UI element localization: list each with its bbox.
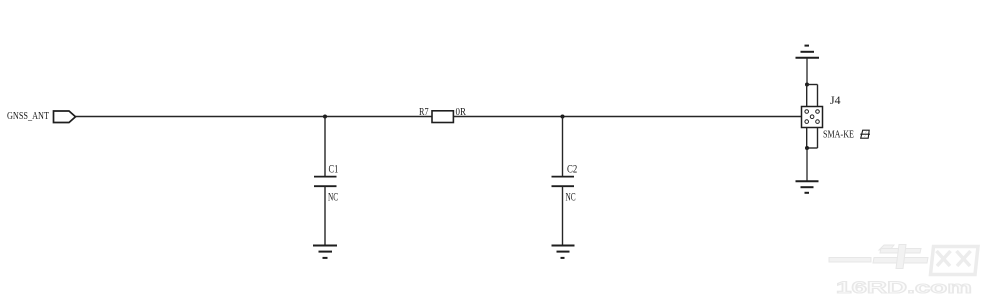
capacitor C1: [314, 177, 337, 187]
resistor R7 body: [432, 111, 453, 123]
svg-text:C1: C1: [329, 162, 339, 176]
node junction J4 bottom: [805, 146, 809, 150]
node junction C1 tap: [323, 115, 327, 119]
svg-text:16RD.com: 16RD.com: [836, 278, 972, 297]
ground above J4 (inverted): [796, 46, 820, 58]
svg-text:NC: NC: [328, 189, 338, 203]
port GNSS_ANT: [54, 111, 76, 123]
wire J4 top ground stem: [806, 58, 808, 85]
node junction J4 top: [805, 83, 809, 87]
wire J4 bottom ground stem: [806, 148, 808, 181]
node junction C2 tap: [561, 115, 565, 119]
watermark yi stroke: [829, 258, 871, 263]
CJK glyph mu (female) of J4 value: [860, 130, 870, 138]
connector J4 body: [802, 107, 823, 128]
wire J4 bottom bracket: [807, 128, 818, 149]
connector J4 pins: [805, 110, 819, 124]
ground below C2: [552, 246, 575, 258]
watermark niu glyph: [873, 245, 928, 269]
capacitor C2: [552, 177, 575, 187]
svg-text:0R: 0R: [456, 106, 467, 118]
watermark wang glyph: [931, 247, 979, 275]
wire C2 upper lead: [562, 117, 564, 177]
wire C1 lower lead: [324, 186, 326, 245]
wire main net GNSS_ANT: [76, 116, 812, 118]
wire C1 upper lead: [324, 117, 326, 177]
svg-text:NC: NC: [566, 189, 576, 203]
svg-text:GNSS_ANT: GNSS_ANT: [7, 110, 49, 122]
wire C2 lower lead: [562, 186, 564, 245]
ground below J4: [796, 181, 819, 193]
ground below C1: [313, 246, 337, 258]
svg-text:C2: C2: [567, 162, 577, 176]
svg-text:J4: J4: [830, 93, 841, 107]
svg-text:SMA-KE: SMA-KE: [823, 130, 854, 141]
svg-text:R7: R7: [419, 106, 429, 118]
wire J4 top bracket: [807, 85, 818, 108]
